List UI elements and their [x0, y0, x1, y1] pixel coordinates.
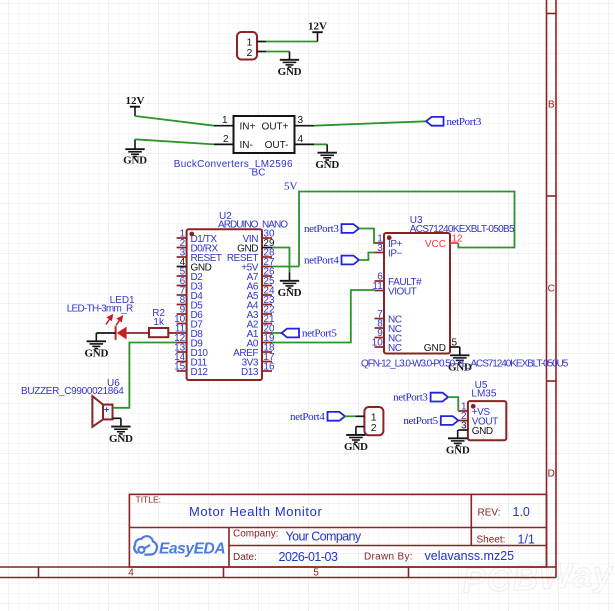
title block frame: [129, 494, 546, 567]
svg-text:OUT+: OUT+: [262, 122, 289, 133]
svg-text:IN-: IN-: [240, 140, 253, 151]
U2 pin 9 stub: [177, 313, 187, 315]
svg-text:12: 12: [452, 234, 464, 245]
U3 pin 3 stub: [375, 252, 385, 254]
wire 12V to U1 IN+: [135, 116, 214, 126]
U2 pin 28 stub: [262, 256, 272, 258]
connector P1: [237, 32, 257, 60]
wire P1.1 to 12V: [266, 41, 318, 43]
U2 pin 18 stub: [262, 351, 272, 353]
U2 pin 22 stub: [262, 313, 272, 315]
ground (U5): [448, 430, 467, 446]
U2 pin 30 stub: [262, 237, 272, 239]
svg-text:5: 5: [313, 568, 319, 579]
net port netPort5 (U5 VOUT): [441, 416, 459, 425]
wire GND to U1 IN-: [135, 139, 214, 144]
U3 pin 1 stub: [375, 242, 385, 244]
U2 pin 19 stub: [262, 342, 272, 344]
svg-text:15: 15: [174, 362, 186, 373]
svg-text:2: 2: [371, 422, 377, 434]
svg-text:Company:: Company:: [233, 529, 279, 540]
U2 pin 11 stub: [177, 332, 187, 334]
svg-text:10: 10: [372, 338, 384, 349]
U2 pin 14 stub: [177, 361, 187, 363]
U2 pin 29 stub: [262, 247, 272, 249]
U2 pin 1 stub: [177, 237, 187, 239]
svg-text:C: C: [548, 284, 555, 295]
LED1 emission arrows: [106, 315, 122, 325]
U2 pin 13 stub: [177, 351, 187, 353]
mcu U2 ARDUINO_NANO: [187, 229, 262, 380]
svg-text:12V: 12V: [126, 95, 145, 107]
U2 pin 27 stub: [262, 266, 272, 268]
U3 pin 5 stub (GND): [450, 346, 460, 348]
U2 pin 15 stub: [177, 370, 187, 372]
U3 pin 7 stub: [375, 318, 385, 320]
U2 pin 6 stub: [177, 285, 187, 287]
U3 pin 9 stub: [375, 337, 385, 339]
U2 pin 2 stub: [177, 247, 187, 249]
svg-text:NC: NC: [388, 343, 402, 354]
resistor R2: [149, 328, 168, 337]
U2 pin 21 stub: [262, 323, 272, 325]
wire LED1 anode to R2: [127, 332, 149, 334]
P1 pin 2 stub: [257, 51, 266, 53]
ground (LED1): [87, 333, 106, 349]
U2 pin 25 stub: [262, 285, 272, 287]
ground (buzzer): [111, 418, 130, 434]
svg-text:1.0: 1.0: [513, 505, 530, 519]
svg-text:BUZZER_C9900021864: BUZZER_C9900021864: [21, 386, 124, 397]
U2 pin 24 stub: [262, 294, 272, 296]
svg-text:Sheet:: Sheet:: [477, 535, 506, 546]
U2 pin 8 stub: [177, 304, 187, 306]
wire netPort4 to P2.1: [345, 415, 355, 417]
svg-text:Motor Health Monitor: Motor Health Monitor: [189, 504, 322, 519]
svg-text:D: D: [548, 469, 555, 480]
current sensor U3 ACS71240KEXBLT-050B5: [384, 233, 450, 354]
svg-text:16: 16: [263, 362, 275, 373]
svg-text:netPort5: netPort5: [403, 415, 438, 427]
svg-text:LM35: LM35: [471, 389, 496, 400]
svg-text:Drawn By:: Drawn By:: [364, 552, 413, 563]
net port netPort4 (U3 IP-): [342, 256, 360, 265]
svg-text:netPort3: netPort3: [304, 223, 339, 235]
svg-text:Date:: Date:: [233, 552, 257, 563]
U1 pin 2 stub: [214, 143, 234, 145]
svg-text:BuckConverters_LM2596: BuckConverters_LM2596: [174, 159, 293, 170]
wire U1 OUT+ to netPort3: [314, 121, 426, 125]
svg-text:GND: GND: [315, 159, 339, 171]
svg-text:D13: D13: [241, 367, 259, 378]
svg-text:3: 3: [461, 421, 467, 432]
U3 pin-1 dot: [387, 235, 392, 240]
U2 pin 10 stub: [177, 323, 187, 325]
svg-text:netPort4: netPort4: [304, 255, 339, 267]
U1 pin 4 stub: [295, 143, 315, 145]
wire 5V rail: [299, 192, 515, 267]
svg-text:5V: 5V: [284, 181, 298, 193]
svg-text:12V: 12V: [308, 21, 327, 33]
svg-text:GND: GND: [109, 433, 133, 445]
U1 pin 1 stub: [214, 125, 234, 127]
svg-text:BC: BC: [252, 168, 266, 179]
svg-text:GND: GND: [344, 441, 368, 453]
P1 pin 1 stub: [257, 41, 266, 43]
svg-text:GND: GND: [278, 287, 302, 299]
power flag 12V (buck input): [134, 107, 136, 116]
U3 pin 6 stub: [375, 280, 385, 282]
temp sensor U5 LM35: [468, 401, 506, 440]
buzzer U6 symbol: [92, 396, 112, 427]
svg-text:1/1: 1/1: [518, 533, 535, 547]
P2 pin 1 stub: [355, 415, 364, 417]
U2 pin 26 stub: [262, 275, 272, 277]
wire R2 to U2 D8: [168, 332, 176, 334]
ground (P2): [346, 427, 365, 443]
ground (buck input): [125, 139, 144, 156]
svg-text:QFN-12_L3.0-W3.0-P0.50-TL_ACS7: QFN-12_L3.0-W3.0-P0.50-TL_ACS71240KEXBLT…: [361, 358, 569, 369]
svg-text:VIOUT: VIOUT: [388, 286, 417, 297]
U2 pin 23 stub: [262, 304, 272, 306]
svg-text:3: 3: [377, 243, 383, 254]
net port netPort5 (A1): [282, 329, 300, 338]
ground (U2): [280, 273, 299, 289]
U3 pin 12 stub (VCC): [450, 242, 458, 244]
svg-text:2: 2: [223, 134, 229, 145]
svg-text:GND: GND: [84, 348, 108, 360]
wire LED1 cathode to GND: [96, 332, 115, 334]
svg-text:4: 4: [128, 568, 134, 579]
buck converter U1 LM2596: [234, 116, 295, 153]
U6 pin 2 stub: [113, 417, 121, 419]
svg-text:ARDUINO_NANO: ARDUINO_NANO: [218, 220, 288, 231]
U5 pin 3 stub: [458, 429, 468, 431]
U5 pin 1 stub: [458, 410, 468, 412]
svg-text:3: 3: [298, 115, 304, 126]
svg-text:LED-TH-3mm_R: LED-TH-3mm_R: [67, 303, 133, 314]
svg-text:IN+: IN+: [240, 122, 256, 133]
LED D1 symbol: [115, 326, 117, 340]
net port netPort3 (buck output): [426, 117, 444, 126]
svg-text:Your Company: Your Company: [286, 530, 362, 544]
wire netPort3 to U3 IP+: [359, 229, 375, 244]
ground (buck output): [318, 144, 337, 160]
svg-text:netPort3: netPort3: [393, 392, 428, 404]
svg-text:11: 11: [372, 281, 383, 292]
wire netPort3 to U5 +VS: [448, 397, 458, 411]
U2 pin-1 dot: [189, 232, 194, 237]
wire netPort4 to U3 IP-: [359, 253, 375, 261]
svg-text:EasyEDA: EasyEDA: [159, 541, 225, 558]
svg-text:netPort5: netPort5: [302, 328, 337, 340]
svg-text:GND: GND: [123, 154, 147, 166]
svg-text:TITLE:: TITLE:: [136, 495, 162, 505]
net port netPort3 (U3 IP+): [342, 224, 360, 233]
ground (U3): [450, 347, 469, 363]
svg-text:1k: 1k: [153, 317, 165, 328]
wire U2 A0 to U3 VIOUT: [272, 290, 375, 343]
P2 pin 2 stub: [356, 426, 365, 428]
U2 pin 20 stub: [262, 332, 272, 334]
svg-text:netPort4: netPort4: [290, 411, 325, 423]
svg-text:+: +: [104, 404, 109, 414]
svg-text:OUT-: OUT-: [265, 140, 289, 151]
U2 pin 16 stub: [262, 370, 272, 372]
svg-text:GND: GND: [446, 445, 470, 457]
U3 pin 8 stub: [375, 327, 385, 329]
net port netPort4 (load connector): [328, 412, 346, 421]
U2 pin 3 stub: [177, 256, 187, 258]
wire U2 +5V(27) to 5V rail: [272, 266, 299, 268]
EasyEDA logo: [134, 536, 157, 554]
svg-text:REV:: REV:: [478, 508, 501, 519]
net port netPort3 (U5 +VS): [431, 393, 449, 402]
ground (top connector): [280, 52, 299, 68]
U2 pin 12 stub: [177, 342, 187, 344]
U1 pin 3 stub: [295, 125, 315, 127]
U3 pin 10 stub: [375, 346, 385, 348]
U2 pin 17 stub: [262, 361, 272, 363]
svg-text:B: B: [548, 100, 555, 111]
svg-text:1: 1: [222, 115, 228, 126]
U2 pin 7 stub: [177, 294, 187, 296]
svg-text:D12: D12: [191, 367, 209, 378]
svg-text:IP−: IP−: [388, 248, 403, 259]
svg-text:4: 4: [298, 134, 304, 145]
U3 pin 11 stub: [375, 290, 385, 292]
U5 pin-1 dot: [471, 404, 476, 409]
svg-text:5: 5: [452, 338, 458, 349]
connector P2: [364, 407, 383, 435]
U5 pin 2 stub: [458, 420, 468, 422]
svg-text:GND: GND: [278, 66, 302, 78]
svg-text:VCC: VCC: [425, 239, 446, 250]
svg-text:GND: GND: [424, 343, 446, 354]
wire U6 + to U2 D9: [113, 343, 177, 408]
svg-text:2026-01-03: 2026-01-03: [279, 550, 338, 564]
wire U2 A1 to netPort5: [272, 332, 282, 334]
svg-text:GND: GND: [472, 426, 493, 437]
svg-text:velavanss.mz25: velavanss.mz25: [425, 549, 515, 563]
U2 pin 5 stub: [177, 275, 187, 277]
power flag 12V (top): [317, 32, 319, 41]
svg-text:2: 2: [247, 47, 253, 59]
wire P1.2 to GND: [266, 51, 290, 53]
U2 pin 4 stub: [177, 266, 187, 268]
wire U2 GND(29) down: [272, 248, 290, 273]
svg-text:netPort3: netPort3: [447, 116, 482, 128]
wire U1 OUT- to GND: [314, 143, 327, 145]
